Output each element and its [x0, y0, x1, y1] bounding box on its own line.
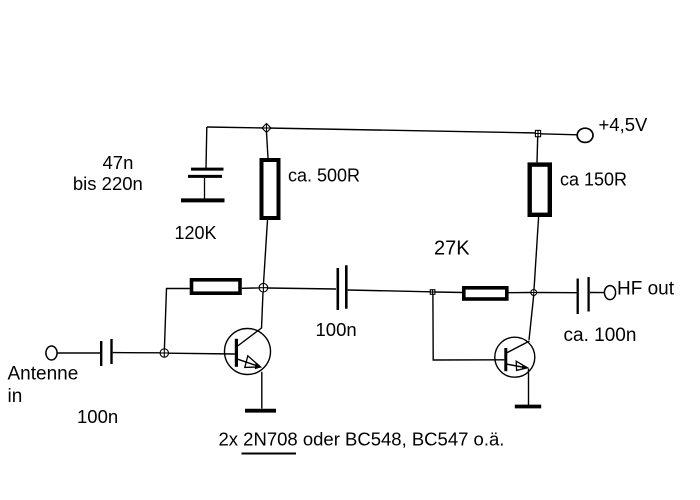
- wire Q2 emitter to ground: [528, 369, 530, 406]
- wire node D down and right to Q2 base: [433, 294, 504, 360]
- wire node F to R4 top: [536, 137, 539, 163]
- transistor Q1: [225, 328, 271, 375]
- caption 2x 2N708 oder BC548, BC547 o.ae.: [219, 429, 505, 454]
- label 47n: [103, 152, 134, 173]
- label HF out: [617, 279, 675, 300]
- transistor Q2: [495, 337, 535, 377]
- svg-text:100n: 100n: [77, 406, 118, 427]
- ground under Q1: [245, 409, 276, 413]
- capacitor C4 ca. 100n output: [578, 277, 589, 314]
- wire C4 to output terminal: [590, 292, 605, 294]
- svg-text:100n: 100n: [316, 319, 357, 340]
- wire R1 right to node B: [242, 287, 259, 289]
- resistor R4 ca 150R: [530, 165, 550, 215]
- svg-text:+4,5V: +4,5V: [599, 114, 649, 135]
- wire Q1 emitter to ground: [261, 372, 263, 409]
- label ca. 500R: [288, 166, 360, 186]
- resistor R2 ca. 500R: [262, 160, 279, 218]
- wire R2 bottom to node B: [264, 220, 268, 284]
- wire node A to R2 top: [267, 133, 269, 159]
- svg-text:in: in: [8, 386, 23, 407]
- wire Q1 collector to node B: [262, 292, 264, 329]
- label 100n coupling: [316, 319, 357, 340]
- wire R3 right to node E: [509, 292, 531, 294]
- wire C2 to node C: [113, 352, 160, 354]
- label ca 150R: [560, 170, 627, 190]
- node D base junction Q2 (small square): [430, 290, 435, 295]
- svg-text:bis 220n: bis 220n: [73, 173, 143, 194]
- node A rail/R2 junction (diamond): [262, 123, 271, 132]
- label in: [8, 386, 23, 407]
- ground under C1: [181, 198, 225, 202]
- svg-text:27K: 27K: [434, 238, 470, 260]
- wire R4 bottom to node E: [534, 217, 539, 290]
- wire rail corner down to C1: [205, 127, 208, 168]
- label 27K: [434, 238, 470, 260]
- ground under Q2: [515, 405, 541, 409]
- wire top supply rail: [207, 127, 538, 133]
- node E collector junction Q2 (small circle): [531, 290, 537, 296]
- terminal HF out: [604, 286, 615, 300]
- svg-text:ca. 100n: ca. 100n: [564, 325, 637, 346]
- svg-text:120K: 120K: [175, 223, 217, 243]
- wire node C to Q1 base: [169, 352, 235, 355]
- resistor R3 27K feedback: [464, 288, 507, 299]
- terminal +4,5V: [577, 128, 593, 142]
- label 100n input: [77, 406, 118, 427]
- node F rail/R4 junction (small square): [535, 130, 540, 136]
- svg-text:ca 150R: ca 150R: [560, 170, 627, 190]
- svg-text:ca. 500R: ca. 500R: [288, 166, 360, 186]
- wire node B to C3: [268, 288, 336, 289]
- wire node E to Q2 collector: [529, 295, 534, 340]
- svg-text:2x 2N708 oder BC548, BC547 o.ä: 2x 2N708 oder BC548, BC547 o.ä.: [219, 429, 505, 450]
- wire node D to R3: [435, 291, 464, 294]
- node C base junction Q1 (circle with cross): [160, 349, 168, 357]
- label bis 220n: [73, 173, 143, 194]
- label +4,5V: [599, 114, 649, 135]
- node B collector junction Q1 (circle with cross): [259, 283, 268, 292]
- wire rail to +4,5V terminal: [541, 134, 578, 135]
- svg-text:HF out: HF out: [617, 279, 675, 300]
- capacitor C2 100n input: [101, 339, 111, 366]
- svg-text:47n: 47n: [103, 152, 134, 173]
- label 120K: [175, 223, 217, 243]
- capacitor C3 100n coupling: [338, 265, 347, 310]
- svg-text:Antenne: Antenne: [8, 364, 79, 385]
- wire node E to C4: [537, 292, 577, 294]
- wire C3 to node D: [348, 290, 431, 292]
- resistor R1 120K feedback: [192, 280, 241, 293]
- capacitor C1 47n bis 220n: [188, 169, 224, 199]
- label ca. 100n: [564, 325, 637, 346]
- wire R1 left down to node C: [164, 289, 189, 349]
- wire input terminal to C2: [57, 352, 100, 354]
- label Antenne: [8, 364, 79, 385]
- terminal antenna input: [46, 346, 57, 360]
